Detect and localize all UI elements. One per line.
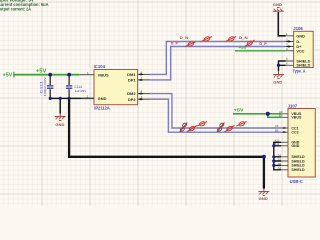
svg-text:D+: D+: [296, 45, 302, 49]
junction bus S3: [272, 164, 275, 167]
svg-text:J106: J106: [293, 26, 303, 31]
svg-text:GND: GND: [98, 96, 107, 101]
svg-text:1uF/25V: 1uF/25V: [75, 89, 88, 93]
junction J106 shields: [277, 64, 280, 67]
svg-text:IC104: IC104: [94, 64, 106, 69]
wire cap bottom rail: [50, 97, 94, 99]
svg-text:GND: GND: [259, 197, 268, 201]
red bead on CC2 rail 2: [224, 126, 234, 133]
svg-text:+5V: +5V: [239, 46, 248, 50]
capacitor C111: [39, 75, 53, 99]
wire +5V to J106 VCC: [235, 50, 286, 52]
ESD bead on D+ rail (left): [185, 41, 195, 47]
maroon filter on CC rails 1: [180, 122, 188, 132]
junction bus B12: [272, 144, 275, 147]
svg-text:Type_A: Type_A: [293, 69, 307, 74]
wire top GND to J106: [278, 12, 285, 36]
svg-text:D_N: D_N: [239, 36, 248, 40]
J106 shield wires to ground: [279, 61, 286, 71]
J106 USB type A connector box: [293, 26, 314, 73]
wire DP2 to CC2 rail: [150, 99, 281, 132]
svg-text:J107: J107: [288, 104, 298, 109]
wire DP1 to D+ rail: [150, 47, 286, 80]
junction rail gnd drop: [59, 97, 62, 100]
USB-C connector J107 box: [288, 104, 316, 184]
svg-text:USB-C: USB-C: [290, 179, 304, 184]
IC104 right pin stubs with arrows: [138, 74, 150, 99]
IC104 pin 2 stub: [81, 97, 94, 99]
svg-text:VCC: VCC: [296, 49, 304, 53]
maroon filter on CC rails 2: [217, 122, 225, 132]
svg-text:DM2: DM2: [127, 91, 136, 96]
svg-text:D_P: D_P: [259, 42, 267, 46]
svg-text:Output current: 2A: Output current: 2A: [0, 7, 32, 12]
thick GND rail: down and across: [69, 98, 264, 156]
svg-text:SHIELD: SHIELD: [291, 155, 305, 159]
svg-text:GND: GND: [55, 123, 64, 127]
red bead on CC1 rail 2: [236, 121, 246, 127]
wire GND drop: [59, 98, 61, 113]
svg-text:GND: GND: [296, 34, 305, 38]
svg-text:SHIELD: SHIELD: [296, 64, 310, 68]
svg-text:DP2: DP2: [128, 97, 137, 102]
svg-text:GND: GND: [291, 144, 299, 148]
IC104 box: [94, 64, 138, 111]
ground symbol left: [55, 113, 66, 120]
svg-text:GND: GND: [273, 81, 282, 85]
wire +5V to USB-C VBUS: [233, 114, 281, 118]
ground top (J106 GND): [273, 3, 284, 11]
wire +5V to IC104 VBUS: [15, 74, 80, 76]
svg-text:IP2112A: IP2112A: [94, 106, 110, 111]
junction VBUS tee: [266, 112, 270, 116]
wire rail junction down to ground: [263, 157, 265, 189]
wire DM2 to CC1 rail: [150, 94, 281, 128]
net port +5V: [3, 72, 14, 79]
red bead on CC2 rail 1: [187, 126, 197, 133]
svg-text:D_P: D_P: [171, 41, 179, 45]
svg-text:+5V: +5V: [3, 73, 13, 79]
svg-text:SHIELD: SHIELD: [291, 164, 305, 168]
ESD bead on D+ rail (right): [245, 40, 255, 47]
J107 gnd+shield bus: [274, 142, 281, 170]
wire DM1 to D- rail: [150, 42, 286, 75]
svg-text:VBUS: VBUS: [98, 72, 109, 77]
svg-text:100uF/10V: 100uF/10V: [43, 76, 47, 97]
junction green cap1: [48, 73, 52, 77]
svg-text:DP1: DP1: [128, 77, 137, 82]
ground symbol bottom right: [259, 188, 270, 195]
junction bus S2: [272, 159, 275, 162]
svg-text:D_N: D_N: [180, 36, 189, 40]
svg-text:GND: GND: [273, 3, 282, 7]
junction rail thick drop: [68, 97, 71, 100]
ESD bead on D- rail 2: [226, 36, 236, 42]
junction rail tee: [262, 155, 266, 159]
junction bus S1: [272, 155, 275, 158]
svg-text:DM1: DM1: [127, 72, 136, 77]
junction rail cap1: [49, 97, 52, 100]
ESD bead on D- rail 1: [202, 36, 212, 42]
capacitor C114: [66, 75, 87, 99]
ground symbol J106 shields: [273, 71, 284, 79]
svg-text:VBUS: VBUS: [291, 116, 302, 120]
IC104 pin 1 stub: [79, 74, 94, 76]
red bead on CC1 rail 1: [197, 121, 207, 127]
svg-text:CC2: CC2: [291, 130, 298, 134]
svg-text:B9: B9: [279, 114, 283, 118]
svg-text:+5V: +5V: [234, 108, 244, 113]
junction green cap2: [67, 73, 71, 77]
J106 pin stubs: [286, 36, 294, 66]
J107 pin stubs: [281, 114, 288, 170]
svg-text:SHIELD: SHIELD: [291, 168, 305, 172]
annotation text block: [0, 0, 49, 12]
svg-text:B5: B5: [275, 128, 279, 132]
svg-text:SHIELD: SHIELD: [291, 159, 305, 163]
svg-text:+5V: +5V: [36, 69, 47, 75]
